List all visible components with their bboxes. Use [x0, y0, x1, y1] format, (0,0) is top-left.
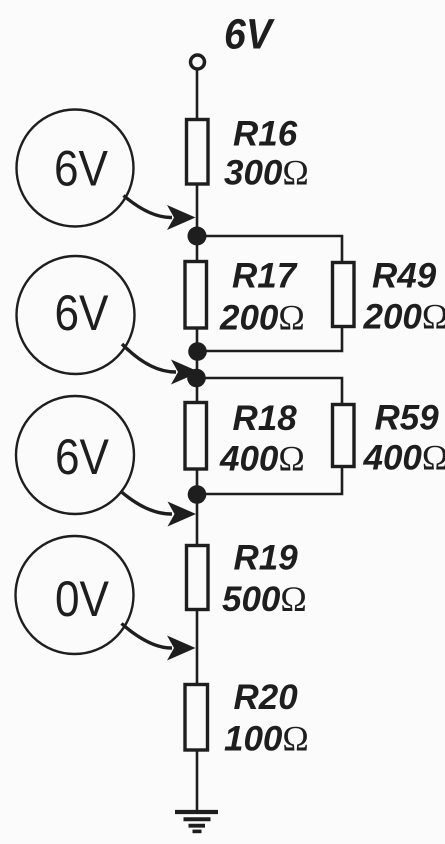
resistor R17	[185, 262, 207, 329]
svg-text:400Ω: 400Ω	[363, 438, 445, 478]
svg-text:200Ω: 200Ω	[219, 298, 305, 338]
svg-text:R16: R16	[233, 115, 298, 154]
svg-text:R59: R59	[375, 399, 440, 438]
node C (junction dot)	[188, 485, 207, 504]
probe arrow 3	[121, 492, 196, 527]
wire R16 to R17 through node A	[196, 184, 199, 262]
wire terminal to R16	[196, 70, 199, 121]
svg-text:100Ω: 100Ω	[224, 719, 309, 759]
wire R17 bottom through nodes B to R18 top	[196, 328, 199, 403]
svg-text:300Ω: 300Ω	[224, 153, 309, 193]
svg-text:R20: R20	[234, 678, 299, 717]
resistor R49	[333, 263, 355, 327]
probe arrow 4	[122, 624, 196, 661]
wire node A to R49 top	[197, 236, 342, 263]
resistor R20	[185, 685, 208, 751]
terminal (open circle, 6V input)	[191, 55, 205, 69]
probe arrow 1	[124, 196, 196, 231]
svg-text:200Ω: 200Ω	[363, 297, 445, 337]
svg-text:R17: R17	[232, 257, 298, 296]
svg-text:6V: 6V	[54, 141, 109, 197]
ground	[175, 812, 218, 831]
voltage probe circle 3 (6V)	[16, 396, 134, 514]
resistor R59	[333, 405, 355, 467]
wire R19 to R20	[196, 609, 199, 686]
wire node B2 to R59 top	[197, 378, 342, 405]
wire R59 bottom to node C	[197, 466, 342, 494]
svg-text:400Ω: 400Ω	[219, 439, 305, 479]
wire R20 to ground	[196, 749, 199, 812]
node A (junction dot)	[188, 227, 207, 246]
node B2 (junction dot)	[187, 369, 206, 388]
svg-text:6V: 6V	[55, 285, 110, 341]
svg-text:500Ω: 500Ω	[222, 579, 307, 619]
node B1 (junction dot)	[188, 342, 207, 361]
svg-text:R19: R19	[234, 539, 299, 578]
svg-text:6V: 6V	[55, 429, 110, 485]
resistor R19	[187, 546, 209, 610]
probe arrow 2	[122, 344, 200, 385]
resistor R18	[185, 403, 207, 470]
resistor R16	[187, 120, 209, 185]
svg-text:6V: 6V	[224, 12, 275, 59]
wire R49 bottom to node B1	[197, 326, 342, 351]
svg-text:R49: R49	[372, 257, 437, 296]
wire R18 bottom through node C to R19 top	[196, 469, 199, 546]
svg-text:R18: R18	[233, 399, 298, 438]
voltage probe circle 1 (6V)	[17, 110, 134, 227]
voltage probe circle 4 (0V)	[16, 536, 134, 654]
svg-text:0V: 0V	[55, 571, 110, 627]
voltage probe circle 2 (6V)	[17, 256, 135, 374]
